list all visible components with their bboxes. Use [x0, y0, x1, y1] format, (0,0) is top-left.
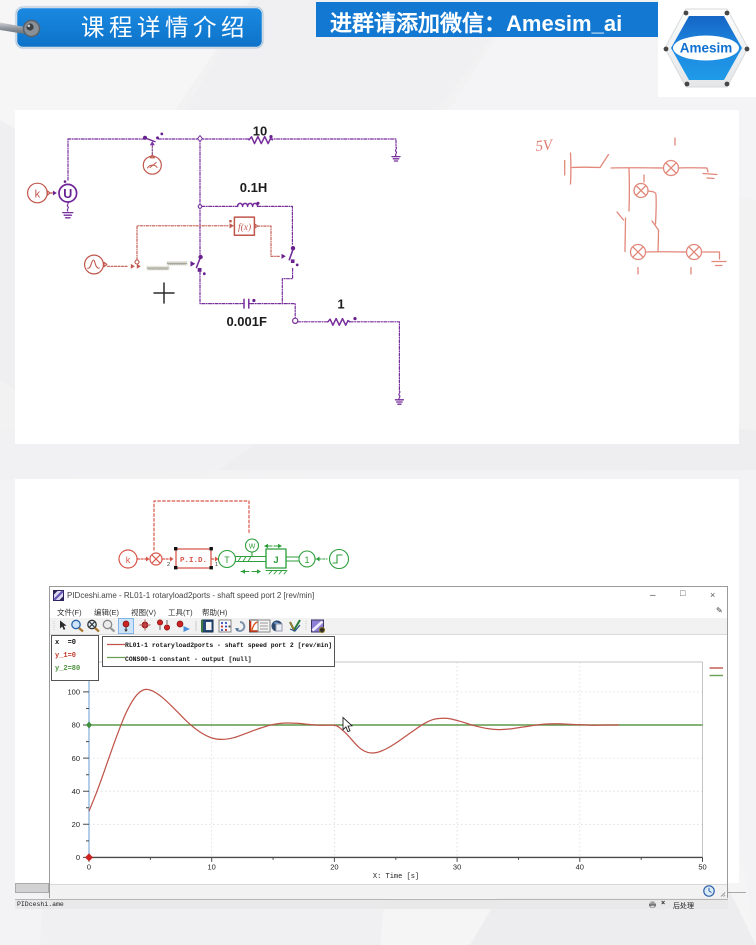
svg-text:1: 1 [337, 297, 344, 312]
shaft 2 [286, 557, 299, 561]
constant source K1 [28, 183, 57, 203]
zoom out [88, 620, 96, 628]
grid horizontal dotted [89, 662, 703, 857]
wire switch S3 bottom elbow [282, 269, 292, 304]
svg-text:J: J [273, 555, 278, 566]
header: blue tag 课程详情介绍 [0, 0, 300, 60]
cursor values box [51, 635, 99, 681]
mouse cross cursor [154, 283, 174, 303]
svg-text:50: 50 [698, 863, 706, 872]
hand sketch 5V circuit (red) [535, 137, 726, 274]
red control net to f(x) [137, 226, 280, 260]
svg-text:80: 80 [72, 721, 80, 730]
wire junction to resistor R2 [298, 321, 328, 323]
torque source T1 [219, 551, 236, 568]
function block F1 f(x) [234, 217, 257, 235]
link PWM to switch S2 [191, 261, 196, 267]
ground G2 under U1 [67, 202, 68, 211]
refresh icon [237, 622, 244, 631]
PID controller block [176, 549, 211, 568]
title bar [50, 587, 727, 605]
link k2 to summer [138, 558, 147, 560]
inductor L1 [238, 203, 258, 206]
wire switch S1 to resistor R1 [159, 138, 250, 140]
marker move tool [142, 622, 148, 628]
node circle inductor tee [198, 205, 202, 209]
wire battery to switch [572, 166, 600, 168]
header: Amesim hexagon logo [656, 0, 756, 100]
wire LP1 to ground [679, 168, 709, 172]
svg-text:40: 40 [576, 863, 584, 872]
wire resistor R2 to ground [350, 322, 399, 391]
PWM block B1 selected (tiny parameter labels) [147, 261, 196, 270]
double arrow node [131, 264, 135, 269]
signal source W1 (waveform) [85, 255, 129, 274]
marker play tool [177, 621, 183, 627]
port dots purple [143, 136, 147, 140]
switch S3 [289, 249, 293, 260]
link PID to T [212, 558, 216, 560]
wire top left [68, 138, 144, 140]
switch blade SW2 left [617, 212, 624, 220]
axis ticks [83, 675, 703, 862]
plot window [49, 586, 728, 898]
logo white patch [658, 0, 756, 97]
wire f(x) out to switch S3 [258, 226, 280, 256]
node junction circle bottom [293, 318, 298, 323]
toolbar [50, 618, 727, 635]
svg-text:0.001F: 0.001F [226, 314, 267, 329]
mouse cursor [343, 718, 352, 732]
svg-text:20: 20 [330, 863, 338, 872]
ground GR2 [712, 262, 726, 266]
lamp LP3 [631, 245, 646, 260]
shaft 1 [236, 557, 267, 562]
wire top main [611, 167, 664, 169]
svg-text:f(x): f(x) [238, 222, 251, 233]
svg-text:2: 2 [167, 562, 170, 568]
resistor R2 value 1 [328, 319, 350, 326]
ground G3 [399, 391, 400, 400]
book icon [202, 620, 213, 632]
left lower vertical [624, 218, 627, 252]
two markers tool [157, 620, 162, 625]
zoom fit [103, 620, 111, 628]
svg-text:30: 30 [453, 863, 461, 872]
x axis [89, 856, 703, 858]
summing junction X1 [150, 553, 162, 565]
battery B [570, 153, 572, 184]
voltage source U1 [59, 180, 77, 202]
zoom in [72, 620, 80, 628]
tick above LP1 [674, 138, 676, 145]
amesim V icon [290, 620, 300, 630]
right lower vertical [657, 230, 660, 252]
svg-text:60: 60 [72, 754, 80, 763]
background window edge line [728, 892, 746, 893]
red response curve [89, 689, 619, 811]
lamp LP2 [634, 184, 648, 198]
ground G1 [395, 147, 396, 156]
globe page icon [272, 621, 283, 632]
green constant line [89, 724, 703, 726]
wire inductor L1 to switch S3 [258, 206, 292, 245]
capacitor C1 plates [244, 299, 249, 308]
selected cursor-marker tool [119, 619, 134, 634]
wire main vertical [199, 139, 201, 254]
legend box [102, 636, 335, 667]
svg-text:X: Time [s]: X: Time [s] [373, 873, 419, 881]
green arrows [265, 545, 281, 547]
tick below LP4 [690, 268, 692, 275]
y axis [88, 662, 90, 857]
svg-text:20: 20 [72, 820, 80, 829]
wire switch S2 down to capacitor C1 [200, 272, 242, 304]
tick above LP2 [643, 175, 645, 182]
arrow at switch S3 (purple) [282, 254, 286, 259]
plot frame [89, 662, 703, 857]
speed sensor W2 [246, 539, 259, 552]
wire signal to PWM [108, 265, 129, 267]
switch blade SW1 [600, 155, 609, 168]
table icon [219, 620, 231, 632]
grid list icon [258, 620, 270, 632]
PID selection handles [167, 547, 218, 569]
svg-text:10: 10 [253, 124, 267, 139]
red origin marker [85, 853, 93, 861]
right edge legend markers [710, 667, 724, 669]
node diamond top junction [198, 136, 203, 142]
wire corner up to f(x) [137, 226, 228, 260]
wire node to inductor L1 [202, 205, 238, 207]
tick below LP3 [637, 268, 639, 275]
white panel 2 [15, 479, 739, 883]
svg-text:0.1H: 0.1H [240, 180, 267, 195]
inertia load J1 [266, 549, 286, 568]
constant source k2 [119, 550, 137, 568]
svg-text:U: U [63, 187, 72, 201]
svg-text:P.I.D.: P.I.D. [180, 557, 207, 565]
PID sketch: feedback loop dashed [119, 501, 249, 568]
svg-text:5V: 5V [535, 137, 555, 155]
svg-text:1: 1 [304, 555, 309, 565]
ground GR1 [703, 174, 717, 179]
wire LP2 right and down [648, 191, 656, 224]
converter block 1 [299, 551, 315, 567]
lamp LP1 [664, 161, 679, 176]
white panel 1 [15, 110, 739, 444]
svg-text:100: 100 [67, 688, 80, 697]
switch blade SW3 right [652, 221, 659, 230]
wire capacitor C1 right [251, 304, 295, 318]
svg-text:T: T [224, 555, 230, 565]
svg-text:10: 10 [208, 863, 216, 872]
wire resistor R1 to ground corner [270, 139, 396, 147]
svg-text:W: W [249, 544, 256, 551]
header: blue banner 进群请添加微信 [316, 2, 658, 37]
svg-text:1: 1 [215, 562, 218, 568]
resistor R1 value 10 [249, 137, 272, 144]
step source ST1 [330, 550, 349, 569]
gray tab bottom-left [15, 883, 49, 893]
branch vertical [628, 168, 630, 211]
wire LP3 to LP4 [646, 251, 687, 253]
plot area svg: page coords via viewBox offset [50, 634, 727, 885]
svg-text:40: 40 [72, 787, 80, 796]
link step to converter [316, 558, 328, 560]
plot red icon [250, 620, 262, 632]
svg-text:0: 0 [76, 853, 80, 862]
svg-text:0: 0 [87, 863, 91, 872]
last purple icon [312, 620, 324, 632]
svg-text:k: k [35, 189, 41, 201]
switch S1 [146, 138, 155, 141]
axis labels [67, 688, 706, 881]
link summer to PID [163, 558, 171, 560]
parent status bar [15, 899, 728, 909]
switch S2 [197, 257, 201, 268]
arrow into f(x) [230, 223, 234, 228]
menu bar [50, 605, 727, 618]
svg-text:k: k [126, 555, 131, 565]
mechanical green chain [219, 539, 349, 574]
cursor tool [60, 621, 67, 630]
window footer [50, 884, 727, 898]
gauge sensor A1 [143, 141, 161, 174]
lamp LP4 [687, 245, 702, 260]
wire LP4 to ground [702, 252, 720, 259]
wire U1 top [67, 139, 69, 180]
